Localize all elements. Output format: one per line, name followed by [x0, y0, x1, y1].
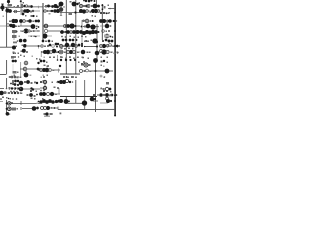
transistor Q82: [62, 39, 65, 42]
transistor Q25: [85, 5, 88, 8]
transistor Q248: [83, 0, 85, 1]
transistor Q274: [0, 98, 2, 100]
wire: [80, 31, 97, 33]
transistor Q128: [11, 92, 13, 94]
transistor U26: [109, 44, 112, 47]
label text: [107, 57, 109, 59]
transistor Q30: [94, 9, 98, 13]
transistor Q268: [116, 94, 118, 96]
wire: [114, 3, 116, 116]
wire: [0, 88, 4, 90]
label text: [27, 20, 29, 22]
transistor Q269: [16, 91, 18, 93]
transistor Q134: [19, 87, 24, 92]
label text: [106, 82, 109, 85]
wire: [0, 25, 6, 27]
wire: [44, 33, 46, 39]
wire: [60, 25, 80, 27]
wire: [13, 11, 20, 13]
label text: [41, 77, 43, 79]
label text: [83, 20, 85, 22]
label text: [10, 98, 12, 100]
transistor Q256: [60, 45, 62, 47]
transistor Q284: [92, 20, 94, 22]
wire: [40, 51, 42, 57]
transistor Q196: [14, 56, 16, 58]
transistor Q277: [16, 98, 18, 100]
transistor Q11: [47, 5, 50, 8]
transistor Q290: [37, 30, 38, 31]
label text: [64, 32, 66, 34]
transistor Q103: [11, 76, 14, 79]
transistor Q174: [116, 20, 117, 21]
label text: [69, 13, 73, 15]
transistor Q173: [97, 5, 100, 8]
label text: [34, 95, 36, 97]
transistor Q107: [24, 73, 29, 78]
transistor Q155: [45, 100, 49, 104]
wire: [0, 101, 3, 103]
transistor Q201: [41, 51, 43, 53]
transistor Q92: [81, 45, 83, 47]
transistor Q2: [0, 5, 4, 9]
wire: [44, 10, 60, 12]
label text: [18, 53, 20, 55]
transistor Q36: [11, 19, 15, 23]
transistor Q217: [9, 88, 11, 90]
transistor Q50: [66, 30, 70, 34]
transistor Q146: [109, 88, 112, 91]
transistor Q115: [74, 59, 76, 61]
label text: [9, 21, 11, 23]
label text: [113, 46, 115, 48]
transistor Q116: [59, 65, 61, 67]
label text: [44, 116, 50, 118]
transistor Q264: [40, 69, 41, 70]
label text: [77, 52, 79, 54]
transistor Q221: [57, 87, 59, 89]
label text: [61, 48, 63, 50]
label text: [42, 98, 44, 100]
transistor Q117: [93, 58, 98, 63]
transistor Q177: [102, 40, 104, 42]
transistor Q270: [68, 100, 70, 102]
label text: [79, 2, 81, 4]
transistor Q112: [60, 59, 62, 61]
transistor Q141: [50, 92, 54, 96]
transistor Q220: [40, 81, 42, 83]
transistor Q71: [19, 39, 23, 43]
transistor Q228: [13, 91, 15, 93]
label text: [17, 77, 19, 79]
transistor Q172: [94, 0, 96, 2]
transistor Q42: [35, 20, 38, 23]
transistor Q20: [72, 2, 77, 7]
transistor U4: [44, 10, 47, 13]
transistor Q275: [8, 98, 9, 99]
transistor U37: [43, 80, 46, 83]
label text: [47, 46, 49, 48]
wire: [100, 51, 113, 53]
label text: [68, 48, 70, 50]
transistor Q48: [69, 23, 74, 28]
transistor U8: [97, 10, 100, 13]
wire: [75, 80, 77, 103]
label text: [34, 98, 36, 100]
wire: [100, 20, 113, 22]
transistor Q8: [23, 9, 27, 13]
wire: [2, 4, 4, 11]
label text: [10, 76, 12, 78]
label text: [75, 77, 77, 79]
transistor Q124: [11, 87, 13, 89]
transistor Q273: [112, 36, 114, 38]
wire: [25, 71, 27, 74]
wire: [20, 30, 40, 32]
wire: [83, 26, 97, 28]
transistor Q35: [106, 12, 108, 14]
label text: [77, 57, 79, 59]
label text: [36, 91, 38, 93]
label text: [104, 35, 110, 38]
transistor Q89: [69, 50, 73, 54]
label text: [81, 36, 83, 38]
transistor Q231: [6, 102, 8, 104]
label text: [14, 75, 16, 77]
transistor Q79: [43, 50, 47, 54]
transistor Q262: [8, 103, 10, 105]
label text: [12, 108, 17, 111]
wire: [40, 87, 43, 89]
wire: [68, 102, 85, 104]
transistor Q58: [79, 30, 83, 34]
transistor Q202: [61, 36, 63, 38]
transistor Q225: [72, 81, 74, 83]
wire: [100, 70, 113, 72]
transistor Q72: [23, 39, 27, 43]
label text: [78, 37, 80, 39]
transistor Q62: [91, 30, 95, 34]
transistor Q69: [105, 34, 110, 39]
transistor U14: [64, 25, 67, 28]
transistor Q156: [48, 99, 52, 103]
transistor Q238: [54, 107, 56, 109]
transistor U45: [44, 107, 47, 110]
label text: [11, 56, 14, 59]
transistor Q51: [72, 30, 76, 34]
transistor U3: [21, 10, 23, 12]
transistor Q161: [45, 112, 48, 115]
transistor U38: [43, 86, 46, 89]
label text: [63, 76, 65, 78]
wire: [58, 108, 100, 110]
wire: [58, 88, 60, 94]
label text: [47, 10, 49, 12]
transistor U10: [23, 20, 26, 23]
label text: [104, 94, 106, 96]
label text: [63, 46, 65, 48]
transistor Q282: [57, 59, 59, 61]
wire: [65, 0, 67, 74]
transistor Q137: [29, 93, 33, 97]
transistor Q198: [47, 45, 49, 47]
label text: [53, 57, 55, 59]
wire: [0, 7, 3, 9]
wire: [101, 4, 103, 40]
wire: [80, 32, 97, 34]
wire: [20, 10, 40, 12]
transistor Q226: [94, 98, 96, 100]
label text: [85, 36, 87, 38]
transistor Q23: [88, 0, 91, 2]
label text: [31, 31, 33, 33]
transistor Q47: [66, 24, 70, 28]
transistor Q170: [32, 15, 34, 17]
transistor Q219: [43, 76, 45, 78]
transistor U30: [23, 67, 27, 71]
transistor Q197: [42, 40, 45, 43]
transistor Q16: [53, 9, 57, 13]
transistor Q188: [65, 31, 67, 33]
label text: [34, 36, 36, 38]
transistor U19: [50, 51, 53, 54]
transistor Q102: [14, 60, 17, 63]
transistor U44: [41, 107, 44, 110]
transistor Q211: [117, 52, 119, 54]
transistor Q15: [51, 10, 53, 12]
transistor Q261: [44, 87, 46, 89]
transistor U51: [38, 68, 40, 70]
transistor Q78: [57, 43, 59, 45]
transistor Q26: [93, 4, 98, 9]
transistor U29: [24, 61, 28, 65]
transistor Q21: [76, 3, 78, 5]
transistor U9: [7, 24, 10, 27]
label text: [64, 48, 66, 50]
label text: [9, 114, 10, 115]
wire: [42, 80, 44, 83]
transistor Q168: [29, 10, 31, 12]
transistor Q289: [33, 30, 35, 32]
label text: [17, 72, 19, 74]
wire: [22, 108, 33, 110]
transistor Q99: [116, 45, 118, 47]
label text: [30, 75, 32, 77]
label text: [61, 57, 63, 59]
label text: [87, 41, 89, 43]
label text: [84, 41, 86, 43]
wire: [44, 6, 60, 8]
wire: [23, 88, 40, 90]
transistor U6: [87, 5, 90, 8]
wire: [44, 84, 46, 87]
label text: [51, 107, 53, 109]
transistor U33: [84, 63, 88, 67]
wire: [88, 70, 100, 72]
transistor Q253: [80, 5, 82, 7]
wire: [6, 78, 8, 89]
wire: [6, 100, 8, 114]
transistor Q43: [37, 20, 40, 23]
transistor Q81: [52, 49, 57, 54]
label text: [36, 58, 38, 60]
transistor Q189: [75, 31, 77, 33]
transistor Q64: [99, 19, 103, 23]
transistor Q40: [19, 19, 23, 23]
transistor Q28: [82, 9, 86, 13]
transistor Q98: [102, 44, 106, 48]
label text: [12, 30, 17, 33]
transistor Q37: [14, 19, 18, 23]
label text: [21, 4, 24, 8]
transistor Q84: [69, 39, 72, 42]
wire: [52, 69, 60, 71]
transistor Q165: [106, 99, 110, 103]
transistor Q167: [29, 6, 31, 8]
transistor Q29: [91, 9, 95, 13]
transistor Q166: [110, 100, 112, 102]
transistor U49: [64, 100, 68, 104]
wire: [20, 102, 40, 104]
transistor Q210: [96, 45, 98, 47]
transistor Q93: [81, 50, 86, 55]
transistor Q266: [104, 76, 105, 77]
transistor Q65: [102, 19, 106, 23]
transistor Q206: [60, 56, 62, 58]
label text: [84, 70, 86, 72]
transistor Q267: [97, 94, 99, 96]
wire: [96, 24, 98, 60]
wire: [20, 62, 22, 78]
wire: [13, 33, 15, 40]
label text: [24, 56, 26, 58]
transistor Q193: [17, 40, 19, 42]
transistor Q278: [6, 88, 8, 90]
transistor U35: [86, 69, 89, 72]
transistor Q77: [55, 43, 58, 46]
transistor Q272: [20, 0, 22, 2]
transistor Q4: [8, 9, 12, 13]
transistor Q182: [114, 100, 116, 102]
label text: [14, 6, 16, 8]
label text: [16, 46, 18, 48]
transistor Q205: [63, 45, 65, 47]
transistor Q132: [26, 80, 30, 84]
transistor Q144: [69, 81, 71, 83]
label text: [32, 56, 34, 58]
transistor Q68: [105, 24, 110, 29]
label text: [88, 58, 90, 60]
transistor Q192: [15, 36, 17, 38]
label text: [74, 37, 76, 39]
label text: [57, 82, 59, 84]
wire: [0, 46, 14, 48]
wire: [8, 2, 10, 5]
label text: [15, 53, 17, 55]
wire: [23, 6, 43, 8]
label text: [45, 41, 47, 43]
transistor Q39: [12, 24, 16, 28]
wire: [20, 107, 22, 110]
wire: [20, 68, 24, 70]
transistor Q187: [75, 25, 77, 27]
transistor U47: [106, 97, 109, 100]
wire: [54, 93, 60, 95]
transistor Q6: [30, 5, 33, 8]
wire: [28, 35, 40, 37]
transistor Q158: [55, 100, 58, 103]
transistor Q175: [108, 30, 110, 32]
transistor U11: [28, 30, 31, 33]
wire: [100, 88, 105, 90]
transistor Q178: [96, 41, 98, 43]
transistor Q118: [105, 69, 110, 74]
transistor Q244: [109, 95, 111, 97]
label text: [55, 94, 57, 96]
label text: [52, 82, 54, 84]
transistor Q5: [23, 5, 25, 7]
transistor Q91: [81, 43, 83, 45]
transistor Q94: [95, 51, 100, 56]
transistor Q285: [97, 26, 99, 28]
wire: [20, 20, 22, 26]
wire: [6, 60, 8, 75]
transistor Q186: [65, 25, 67, 27]
transistor Q113: [65, 59, 67, 61]
label text: [53, 70, 55, 72]
label text: [44, 113, 46, 115]
transistor U36: [100, 75, 102, 77]
transistor U48: [106, 45, 109, 48]
transistor Q258: [25, 62, 27, 64]
transistor Q149: [111, 94, 114, 97]
transistor Q232: [6, 108, 8, 110]
transistor Q53: [82, 20, 84, 22]
transistor Q251: [98, 31, 100, 33]
transistor Q224: [83, 61, 85, 63]
transistor Q54: [86, 20, 88, 22]
transistor Q83: [65, 39, 68, 42]
transistor Q230: [14, 108, 16, 110]
label text: [82, 57, 84, 59]
transistor Q97: [111, 40, 114, 43]
wire: [100, 25, 107, 27]
transistor Q216: [10, 83, 12, 85]
wire: [48, 30, 60, 32]
transistor U41: [105, 87, 108, 90]
transistor U46: [4, 91, 6, 93]
transistor Q164: [82, 100, 87, 105]
label text: [17, 88, 19, 90]
label text: [22, 31, 24, 33]
label text: [16, 7, 18, 9]
transistor Q59: [82, 31, 86, 35]
label text: [64, 52, 66, 54]
label text: [106, 31, 108, 33]
transistor Q22: [85, 0, 87, 2]
diode D1: [84, 46, 86, 47]
transistor Q60: [85, 30, 89, 34]
wire: [57, 107, 59, 110]
label text: [21, 93, 23, 95]
transistor Q129: [14, 92, 16, 94]
label text: [108, 13, 110, 15]
transistor Q45: [23, 28, 28, 33]
label text: [12, 35, 17, 38]
transistor Q143: [62, 80, 66, 84]
label text: [37, 103, 39, 105]
transistor Q96: [108, 40, 111, 43]
